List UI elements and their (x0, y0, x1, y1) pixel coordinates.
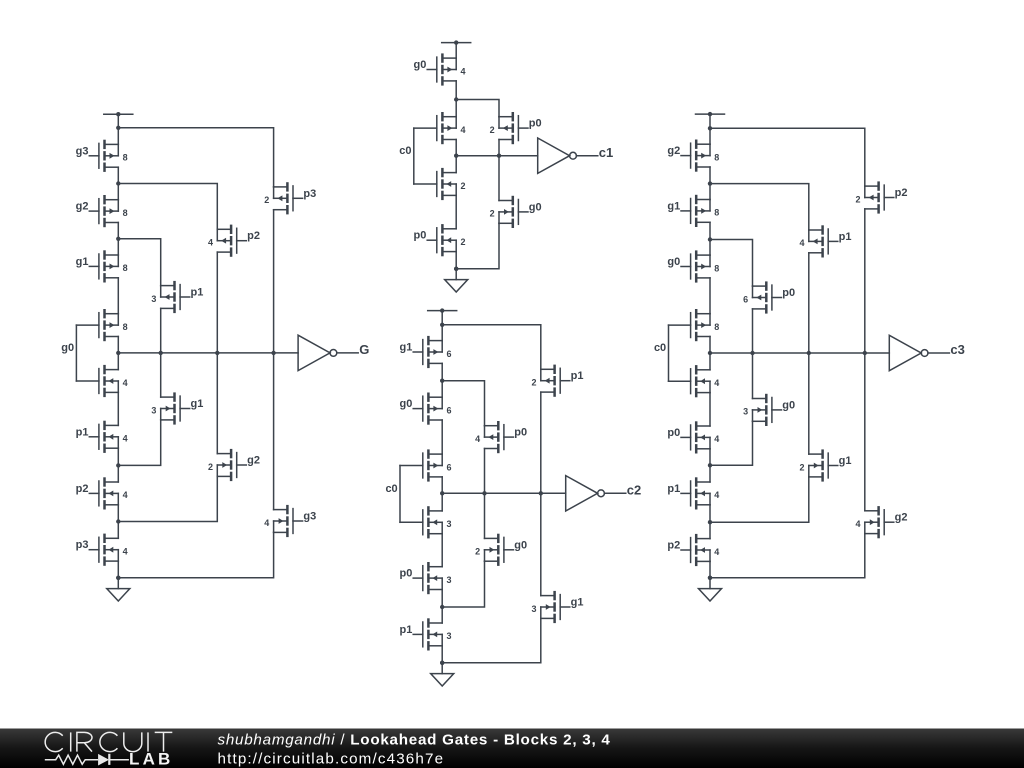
wire series chain block 2 segment 2 (455, 81, 457, 117)
node G (output label) (359, 342, 369, 357)
svg-text:p0: p0 (514, 427, 527, 439)
svg-text:g0: g0 (61, 342, 74, 354)
wire series chain block 1 segment 2 (117, 167, 119, 200)
wire output row to NMOS g1 block 4 (808, 353, 810, 454)
svg-text:g2: g2 (895, 512, 908, 524)
svg-text:c0: c0 (399, 145, 411, 157)
wire series chain block 4 segment 4 (709, 278, 711, 314)
svg-text:3: 3 (447, 575, 452, 585)
wire PMOS p0 drain to output row block 3 (484, 449, 486, 494)
wire series chain block 2 segment 4 (455, 195, 457, 228)
node output row junction block 1 (116, 351, 120, 355)
wire PMOS p1 drain to output row block 4 (808, 253, 810, 353)
svg-text:p3: p3 (303, 188, 316, 200)
transistor c0 PMOS W=4 block 2 (414, 112, 466, 144)
node chain junction y=578 block 4 (708, 576, 712, 580)
node chain junction y=269 block 2 (454, 267, 458, 271)
wire series chain block 4 segment 8 (709, 505, 711, 539)
wire series chain block 2 segment 1 (455, 43, 457, 59)
node output row junction block 2 (454, 154, 458, 158)
svg-text:g2: g2 (76, 201, 89, 213)
wire inverter output to G (337, 352, 358, 354)
svg-text:4: 4 (714, 434, 719, 444)
node output row junction block 4 (708, 351, 712, 355)
svg-text:4: 4 (208, 238, 213, 248)
transistor c0 NMOS W=2 block 2 (414, 168, 466, 200)
transistor p2 NMOS W=4 block 1 (76, 477, 128, 509)
transistor p2 NMOS W=4 block 4 (667, 534, 719, 566)
wire NMOS g0 source to node y=607 block 3 (442, 561, 484, 607)
wire PMOS p3 drain to output row block 1 (273, 210, 275, 353)
svg-text:p1: p1 (400, 624, 413, 636)
node c1 (output label) (599, 145, 613, 160)
wire NMOS g2 source to node y=522 block 1 (118, 476, 217, 521)
wire c0 gate link block 2 (413, 128, 415, 184)
svg-text:g0: g0 (414, 59, 427, 71)
transistor p3 PMOS W=2 block 1 (264, 182, 316, 214)
svg-text:g3: g3 (303, 511, 316, 523)
transistor g0 PMOS W=8 block 1 (76, 309, 127, 341)
transistor g1 PMOS W=8 block 1 (76, 250, 128, 282)
node chain junction y=578 block 4 (708, 576, 712, 580)
svg-text:p2: p2 (895, 187, 908, 199)
svg-text:4: 4 (714, 490, 719, 500)
svg-text:g3: g3 (76, 145, 89, 157)
transistor c0 PMOS W=6 block 3 (400, 449, 452, 481)
CircuitLab logo: CIRCUIT wordmark (45, 732, 172, 751)
svg-text:4: 4 (461, 125, 466, 135)
transistor g1 NMOS W=3 block 3 (531, 591, 583, 623)
wire series chain block 1 segment 7 (117, 448, 119, 482)
svg-text:4: 4 (855, 519, 860, 529)
svg-text:8: 8 (714, 322, 719, 332)
svg-text:6: 6 (447, 462, 452, 472)
svg-text:p2: p2 (667, 540, 680, 552)
node c0 (input label) block 3 (385, 483, 397, 495)
transistor g0 PMOS W=4 block 2 (414, 53, 466, 85)
transistor p0 NMOS W=4 block 4 (667, 421, 719, 453)
CircuitLab logo: LAB (129, 750, 174, 768)
node chain junction y=663 block 3 (440, 661, 444, 665)
transistor c0 PMOS W=8 block 4 (669, 309, 720, 341)
svg-text:G: G (359, 342, 369, 357)
ground block 1 (107, 589, 130, 601)
wire output row block 2 (456, 155, 538, 157)
svg-text:3: 3 (531, 604, 536, 614)
svg-text:p2: p2 (76, 483, 89, 495)
wire c0 gate link block 4 (668, 325, 670, 381)
transistor p0 NMOS W=2 block 2 (414, 224, 466, 256)
svg-text:3: 3 (151, 294, 156, 304)
svg-text:p3: p3 (76, 539, 89, 551)
wire node y=184 to PMOS p2 block 1 (118, 184, 217, 230)
svg-text:4: 4 (264, 518, 269, 528)
CircuitLab logo: diode triangle (98, 754, 109, 766)
svg-text:4: 4 (123, 547, 128, 557)
node output row junction block 3 (440, 491, 444, 495)
wire output row to NMOS g0 block 3 (484, 493, 486, 538)
node chain junction y=607 block 3 (440, 605, 444, 609)
svg-text:2: 2 (799, 462, 804, 472)
svg-text:4: 4 (123, 490, 128, 500)
transistor p0 PMOS W=6 block 4 (743, 281, 795, 313)
svg-text:p0: p0 (400, 568, 413, 580)
wire output row to NMOS g2 block 4 (864, 353, 866, 511)
transistor g2 PMOS W=8 block 1 (76, 195, 128, 227)
wire output row to NMOS g2 block 1 (216, 353, 218, 454)
wire series chain block 1 segment 1 (117, 114, 119, 144)
wire PMOS p1 drain to output row block 1 (160, 308, 162, 353)
footer title text (218, 732, 611, 749)
transistor p3 NMOS W=4 block 1 (76, 534, 128, 566)
wire PMOS p1 drain to output row block 3 (540, 392, 542, 493)
svg-text:4: 4 (475, 434, 480, 444)
wire NMOS g1 source to node y=663 block 3 (442, 618, 541, 662)
transistor g0 NMOS W=3 block 4 (743, 394, 795, 426)
wire output row to NMOS g0 block 2 (498, 156, 500, 201)
transistor g0 PMOS W=8 block 4 (667, 250, 719, 282)
transistor p1 NMOS W=3 block 3 (400, 618, 452, 650)
svg-text:8: 8 (123, 263, 128, 273)
node chain junction y=522 block 1 (116, 519, 120, 523)
wire series chain block 2 segment 3 (455, 140, 457, 173)
node c2 (output label) (627, 483, 641, 498)
svg-text:g0: g0 (782, 399, 795, 411)
wire NMOS g1 source to node y=522 block 4 (710, 477, 809, 522)
svg-text:3: 3 (447, 631, 452, 641)
wire series chain block 1 segment 5 (117, 337, 119, 370)
transistor p1 NMOS W=4 block 4 (667, 477, 719, 509)
svg-text:2: 2 (855, 194, 860, 204)
wire node y=240 to PMOS p0 block 4 (710, 240, 753, 287)
power VDD rail block 3 (428, 308, 457, 312)
wire PMOS p0 drain to output row block 2 (498, 140, 500, 156)
transistor c0 NMOS W=3 block 3 (400, 506, 452, 538)
wire series chain block 4 segment 9 (709, 561, 711, 588)
wire NMOS g3 source to node y=578 block 1 (118, 532, 273, 577)
transistor g1 NMOS W=2 block 4 (799, 449, 851, 481)
svg-text:4: 4 (799, 238, 804, 248)
wire node y=128 to PMOS p2 block 4 (710, 128, 865, 186)
svg-text:g1: g1 (400, 342, 413, 354)
node output row junction x=752 block 4 (750, 351, 754, 355)
svg-text:g0: g0 (529, 201, 542, 213)
inverter U_3 (c2 driver) (566, 476, 605, 511)
inverter U_1 (G driver) (298, 335, 337, 370)
wire node y=239 to PMOS p1 block 1 (118, 239, 160, 286)
wire series chain block 2 segment 5 (455, 252, 457, 280)
svg-text:c1: c1 (599, 145, 613, 160)
svg-text:c2: c2 (627, 483, 641, 498)
node output row junction x=809 block 4 (807, 351, 811, 355)
node c0 (input label) block 2 (399, 145, 411, 157)
wire output row to NMOS g3 block 1 (273, 353, 275, 510)
node g0 (input label) block 1 (61, 342, 74, 354)
node chain junction y=240 block 4 (708, 237, 712, 241)
node chain junction y=522 block 4 (708, 520, 712, 524)
wire output row block 3 (442, 492, 566, 494)
node output row junction x=484 block 3 (482, 491, 486, 495)
node chain junction y=184 block 1 (116, 181, 120, 185)
transistor g2 NMOS W=4 block 4 (855, 506, 907, 538)
svg-text:g0: g0 (667, 256, 680, 268)
ground block 3 (431, 674, 454, 686)
svg-text:p1: p1 (571, 370, 584, 382)
wire series chain block 4 segment 1 (709, 114, 711, 144)
svg-text:2: 2 (208, 462, 213, 472)
wire PMOS p0 drain to output row block 4 (752, 309, 754, 353)
node chain junction y=325 block 3 (440, 323, 444, 327)
wire series chain block 1 segment 3 (117, 223, 119, 256)
svg-text:g0: g0 (400, 398, 413, 410)
transistor g0 PMOS W=6 block 3 (400, 393, 452, 425)
transistor p1 PMOS W=4 block 4 (799, 225, 851, 257)
transistor p0 PMOS W=4 block 3 (475, 421, 527, 453)
node output row junction x=274 block 1 (271, 351, 275, 355)
node chain junction y=465 block 1 (116, 463, 120, 467)
wire output row to NMOS g1 block 1 (160, 353, 162, 397)
node chain junction y=578 block 1 (116, 576, 120, 580)
svg-text:LAB: LAB (129, 750, 174, 768)
svg-text:8: 8 (123, 153, 128, 163)
svg-text:4: 4 (714, 547, 719, 557)
svg-text:c0: c0 (654, 342, 666, 354)
transistor g2 PMOS W=8 block 4 (667, 140, 719, 172)
node c3 (output label) (950, 342, 964, 357)
svg-text:shubhamgandhi / Lookahead Gate: shubhamgandhi / Lookahead Gates - Blocks… (218, 732, 611, 749)
svg-text:c3: c3 (950, 342, 964, 357)
svg-text:p0: p0 (529, 118, 542, 130)
node chain junction y=578 block 1 (116, 576, 120, 580)
power VDD rail block 1 (104, 112, 133, 116)
ground block 4 (699, 589, 722, 601)
transistor g0 NMOS W=4 block 1 (76, 365, 127, 397)
node c0 (input label) block 4 (654, 342, 666, 354)
wire series chain block 3 segment 7 (441, 646, 443, 674)
wire series chain block 4 segment 6 (709, 393, 711, 426)
wire series chain block 3 segment 2 (441, 363, 443, 397)
transistor g3 NMOS W=4 block 1 (264, 505, 316, 537)
svg-text:p0: p0 (667, 427, 680, 439)
svg-text:4: 4 (714, 378, 719, 388)
wire node y=184 to PMOS p1 block 4 (710, 184, 809, 230)
transistor p2 PMOS W=4 block 1 (208, 225, 260, 257)
node chain junction y=663 block 3 (440, 661, 444, 665)
wire output row to NMOS g1 block 3 (540, 493, 542, 595)
transistor p1 PMOS W=3 block 1 (151, 281, 203, 313)
node chain junction y=465 block 4 (708, 463, 712, 467)
svg-text:8: 8 (714, 152, 719, 162)
svg-text:2: 2 (475, 547, 480, 557)
wire series chain block 1 segment 6 (117, 392, 119, 425)
wire NMOS g2 source to node y=578 block 4 (710, 534, 865, 578)
wire series chain block 1 segment 8 (117, 505, 119, 539)
svg-text:g1: g1 (667, 200, 680, 212)
svg-text:g1: g1 (191, 398, 204, 410)
transistor p0 PMOS W=2 block 2 (490, 112, 542, 144)
svg-text:6: 6 (447, 405, 452, 415)
svg-text:p1: p1 (667, 483, 680, 495)
svg-text:4: 4 (123, 378, 128, 388)
node output row junction x=865 block 4 (863, 351, 867, 355)
wire NMOS g0 source to node y=269 block 2 (456, 223, 499, 268)
svg-text:g1: g1 (571, 597, 584, 609)
wire PMOS p2 drain to output row block 4 (864, 209, 866, 353)
svg-text:g1: g1 (76, 256, 89, 268)
node chain junction y=269 block 2 (454, 267, 458, 271)
wire g0 gate link block 1 (75, 325, 77, 381)
wire series chain block 3 segment 6 (441, 590, 443, 624)
svg-text:3: 3 (743, 407, 748, 417)
svg-text:g0: g0 (514, 539, 527, 551)
svg-text:8: 8 (714, 263, 719, 273)
inverter U_4 (c3 driver) (889, 335, 928, 370)
transistor g3 PMOS W=8 block 1 (76, 140, 128, 172)
svg-text:8: 8 (714, 208, 719, 218)
svg-text:p1: p1 (191, 287, 204, 299)
node output row junction x=541 block 3 (539, 491, 543, 495)
svg-text:p1: p1 (76, 426, 89, 438)
svg-text:4: 4 (123, 434, 128, 444)
wire inverter output to c3 (928, 352, 949, 354)
footer bar (0, 729, 1024, 768)
CircuitLab logo: waveform (resistor + diode) (45, 754, 129, 765)
wire series chain block 3 segment 4 (441, 477, 443, 511)
svg-text:3: 3 (151, 405, 156, 415)
wire output row block 4 (710, 352, 889, 354)
transistor g0 NMOS W=2 block 3 (475, 534, 527, 566)
power VDD rail block 2 (442, 40, 471, 44)
wire inverter output to c2 (604, 492, 625, 494)
wire NMOS g0 source to node y=465 block 4 (710, 421, 753, 465)
wire node y=128 to PMOS p3 block 1 (118, 128, 273, 187)
svg-text:2: 2 (490, 209, 495, 219)
node chain junction y=128 block 1 (116, 126, 120, 130)
wire series chain block 4 segment 7 (709, 449, 711, 482)
svg-text:2: 2 (461, 181, 466, 191)
wire series chain block 3 segment 3 (441, 420, 443, 454)
wire NMOS g1 source to node y=465 block 1 (118, 420, 160, 466)
node chain junction y=381 block 3 (440, 379, 444, 383)
svg-text:2: 2 (490, 125, 495, 135)
transistor g1 PMOS W=8 block 4 (667, 195, 719, 227)
node chain junction y=239 block 1 (116, 237, 120, 241)
svg-text:3: 3 (447, 519, 452, 529)
svg-text:8: 8 (123, 208, 128, 218)
node output row junction x=217 block 1 (215, 351, 219, 355)
node output row junction x=499 block 2 (497, 154, 501, 158)
svg-text:6: 6 (447, 349, 452, 359)
svg-text:p2: p2 (247, 230, 260, 242)
svg-text:2: 2 (531, 378, 536, 388)
wire series chain block 1 segment 4 (117, 278, 119, 314)
svg-text:2: 2 (264, 195, 269, 205)
wire PMOS p2 drain to output row block 1 (216, 252, 218, 353)
wire output row to NMOS g0 block 4 (752, 353, 754, 399)
wire series chain block 4 segment 5 (709, 337, 711, 370)
wire series chain block 3 segment 5 (441, 534, 443, 567)
wire output row block 1 (118, 352, 298, 354)
wire series chain block 1 segment 9 (117, 561, 119, 589)
transistor p0 NMOS W=3 block 3 (400, 562, 452, 594)
svg-text:2: 2 (461, 237, 466, 247)
svg-text:g2: g2 (667, 145, 680, 157)
transistor g2 NMOS W=2 block 1 (208, 449, 260, 481)
transistor g1 PMOS W=6 block 3 (400, 336, 452, 368)
inverter U_2 (c1 driver) (538, 138, 577, 173)
transistor c0 NMOS W=4 block 4 (669, 365, 720, 397)
svg-text:p0: p0 (782, 287, 795, 299)
svg-text:http://circuitlab.com/c436h7e: http://circuitlab.com/c436h7e (218, 750, 445, 767)
footer url text (218, 750, 445, 767)
transistor p2 PMOS W=2 block 4 (855, 181, 907, 213)
wire node y=325 to PMOS p1 block 3 (442, 325, 541, 370)
transistor p1 PMOS W=2 block 3 (531, 365, 583, 397)
svg-text:c0: c0 (385, 483, 397, 495)
wire inverter output to c1 (576, 155, 597, 157)
transistor g1 NMOS W=3 block 1 (151, 392, 203, 424)
wire series chain block 4 segment 3 (709, 222, 711, 255)
wire series chain block 4 segment 2 (709, 167, 711, 200)
svg-text:p0: p0 (414, 230, 427, 242)
ground block 2 (445, 280, 468, 292)
transistor g0 NMOS W=2 block 2 (490, 196, 542, 228)
wire node y=381 to PMOS p0 block 3 (442, 381, 484, 426)
svg-text:g2: g2 (247, 455, 260, 467)
svg-text:6: 6 (743, 294, 748, 304)
transistor p1 NMOS W=4 block 1 (76, 421, 128, 453)
power VDD rail block 4 (696, 112, 725, 116)
node output row junction x=161 block 1 (159, 351, 163, 355)
svg-text:p1: p1 (839, 231, 852, 243)
svg-text:g1: g1 (839, 455, 852, 467)
svg-text:8: 8 (123, 322, 128, 332)
node chain junction y=184 block 4 (708, 181, 712, 185)
wire series chain block 3 segment 1 (441, 311, 443, 341)
node chain junction y=128 block 4 (708, 126, 712, 130)
node chain junction y=100 block 2 (454, 97, 458, 101)
wire c0 gate link block 3 (399, 466, 401, 523)
wire node y=100 to PMOS p0 block 2 (456, 100, 499, 117)
svg-text:4: 4 (461, 66, 466, 76)
